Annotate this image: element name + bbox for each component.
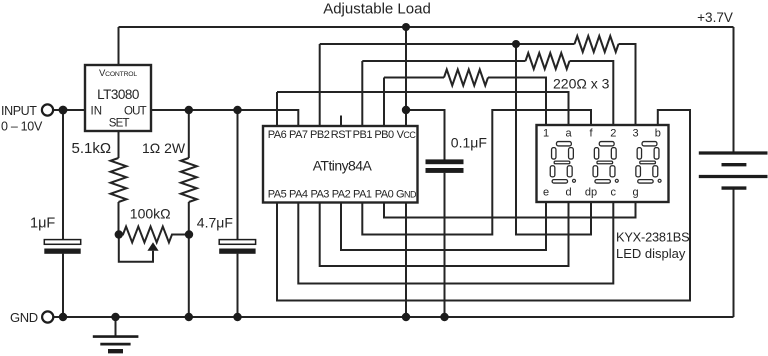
svg-text:g: g — [632, 187, 638, 199]
svg-text:RST: RST — [331, 129, 352, 141]
svg-text:PB2: PB2 — [310, 129, 330, 141]
svg-text:PA1: PA1 — [353, 189, 372, 201]
display DS1 box — [537, 125, 669, 202]
svg-text:LED display: LED display — [616, 246, 686, 261]
node: Vcc branch — [402, 106, 410, 114]
svg-text:2: 2 — [610, 128, 616, 140]
svg-text:e: e — [543, 187, 549, 199]
svg-text:IN: IN — [91, 106, 103, 118]
svg-text:VCC: VCC — [397, 129, 417, 141]
capacitor C3 0.1uF — [426, 159, 464, 164]
net: PA5 to segment b — [277, 110, 690, 301]
svg-text:220Ω x 3: 220Ω x 3 — [553, 76, 610, 92]
net: PA6 to segment a — [277, 92, 569, 125]
svg-text:PA3: PA3 — [310, 189, 329, 201]
capacitor C1 1uF — [44, 240, 80, 245]
wiper return wire — [119, 235, 153, 262]
svg-text:1μF: 1μF — [30, 216, 55, 232]
net: PA0 to segment g — [384, 202, 636, 218]
svg-text:GND: GND — [10, 310, 38, 325]
wire: 1 ohm top lead — [188, 110, 190, 158]
svg-text:5.1kΩ: 5.1kΩ — [72, 140, 112, 157]
wire: PB2 up to digit3 line — [319, 44, 321, 126]
resistor R3 220 zigzag — [575, 36, 619, 52]
wire: ground bus — [54, 316, 734, 318]
svg-text:d: d — [565, 187, 571, 199]
net: PB2 to digit 3 anode — [320, 43, 575, 45]
svg-text:GND: GND — [396, 189, 417, 201]
wire: Vcc up to top rail — [405, 27, 407, 126]
node: dp branch — [512, 40, 520, 48]
svg-text:Adjustable Load: Adjustable Load — [323, 1, 431, 18]
wire: input node vertical to 1uF — [62, 110, 64, 240]
wire: RST stub — [340, 116, 342, 127]
wire: Vcontrol vertical — [118, 27, 120, 65]
svg-text:dp: dp — [585, 187, 597, 199]
wire: PB0 up to digit1 line — [383, 78, 385, 127]
wire: 0.1uF bottom to ground bus — [444, 173, 446, 317]
display pin labels — [543, 128, 661, 199]
svg-text:0.1μF: 0.1μF — [451, 134, 487, 150]
svg-text:4.7μF: 4.7μF — [197, 215, 233, 231]
node: gnd ATtiny — [402, 313, 410, 321]
ground symbol — [115, 317, 117, 336]
svg-text:ATtiny84A: ATtiny84A — [313, 158, 373, 174]
net: PB0 to digit 1 anode — [384, 77, 444, 79]
node: pot right — [185, 230, 193, 238]
node: out/R2 — [185, 106, 193, 114]
svg-text:3: 3 — [632, 128, 638, 140]
wire: 1 ohm bottom through pot right node to ground — [188, 202, 190, 317]
wire: top rail from Vcontrol to battery — [119, 26, 734, 28]
wiper arrow — [147, 242, 158, 251]
node: gnd input — [59, 313, 67, 321]
svg-text:PB0: PB0 — [374, 129, 394, 141]
node: out/C2 — [233, 106, 241, 114]
svg-text:LT3080: LT3080 — [97, 87, 139, 102]
svg-text:PA5: PA5 — [268, 189, 287, 201]
wire: battery top lead — [733, 27, 735, 153]
resistor R2 1ohm zigzag — [181, 158, 197, 202]
wire: input lead to LT3080 IN — [53, 109, 85, 111]
battery BT1 — [699, 151, 768, 189]
resistor R5 220 zigzag — [444, 70, 488, 86]
net: PB1 to digit 2 anode — [362, 60, 525, 62]
terminal: GND — [42, 311, 53, 322]
wire: ATtiny GND pin to ground bus — [405, 202, 407, 317]
svg-text:PA0: PA0 — [375, 189, 394, 201]
7-segment digit 1 — [550, 142, 575, 184]
svg-text:1Ω 2W: 1Ω 2W — [142, 140, 186, 156]
svg-text:SET: SET — [109, 118, 130, 130]
resistor R1 5.1k zigzag — [111, 158, 127, 202]
svg-text:0 – 10V: 0 – 10V — [1, 120, 43, 134]
svg-text:1: 1 — [543, 128, 549, 140]
wire: LT3080 OUT line to PA7 — [151, 110, 298, 126]
wire: Vcc branch to 0.1uF — [406, 110, 445, 160]
svg-text:PB1: PB1 — [353, 129, 373, 141]
node: Vcc top rail — [402, 23, 410, 31]
svg-text:OUT: OUT — [124, 106, 147, 118]
wire: PB1 up to digit2 line — [361, 61, 363, 126]
wire: 1uF bottom to ground bus — [62, 254, 64, 317]
wire: 4.7uF top lead — [237, 110, 239, 240]
wire: PA6 up to a-line — [276, 92, 278, 126]
node: gnd C2 — [233, 313, 241, 321]
svg-text:100kΩ: 100kΩ — [130, 206, 171, 222]
wire: R1 bottom to pot left node — [118, 202, 120, 235]
net: PA2 to segment e — [341, 202, 546, 250]
net: PA3 to segment d — [320, 202, 569, 266]
capacitor C2 4.7uF — [219, 240, 255, 245]
net: PA1 to segment f — [362, 110, 591, 235]
resistor R4 220 zigzag — [526, 53, 570, 69]
net: dp to digit3 anode line — [516, 44, 591, 235]
wire: 4.7uF bottom lead — [237, 254, 239, 317]
svg-text:PA4: PA4 — [289, 189, 308, 201]
net: PA4 to segment c — [298, 202, 613, 284]
7-segment digit 2 — [593, 142, 618, 184]
node: gnd symbol — [111, 313, 119, 321]
svg-text:PA2: PA2 — [332, 189, 351, 201]
node: gnd C3 — [440, 313, 448, 321]
svg-text:PA6: PA6 — [268, 129, 287, 141]
potentiometer RV1 100k zigzag — [119, 227, 189, 243]
wire: SET lead — [118, 131, 120, 158]
7-segment digit 3 — [636, 142, 661, 184]
svg-text:INPUT: INPUT — [1, 104, 37, 118]
svg-text:+3.7V: +3.7V — [697, 10, 733, 25]
svg-text:a: a — [565, 128, 572, 140]
ATtiny U2 box — [263, 126, 418, 203]
terminal: INPUT — [42, 104, 53, 115]
node: gnd R2 — [185, 313, 193, 321]
node: input — [59, 106, 68, 115]
op-amp U1 LT3080 box — [85, 65, 151, 131]
svg-text:KYX-2381BS: KYX-2381BS — [616, 230, 689, 245]
svg-text:b: b — [655, 128, 661, 140]
node: pot left — [115, 230, 123, 238]
svg-text:c: c — [611, 187, 617, 199]
svg-text:PA7: PA7 — [289, 129, 308, 141]
wire: battery bottom lead — [733, 188, 735, 317]
